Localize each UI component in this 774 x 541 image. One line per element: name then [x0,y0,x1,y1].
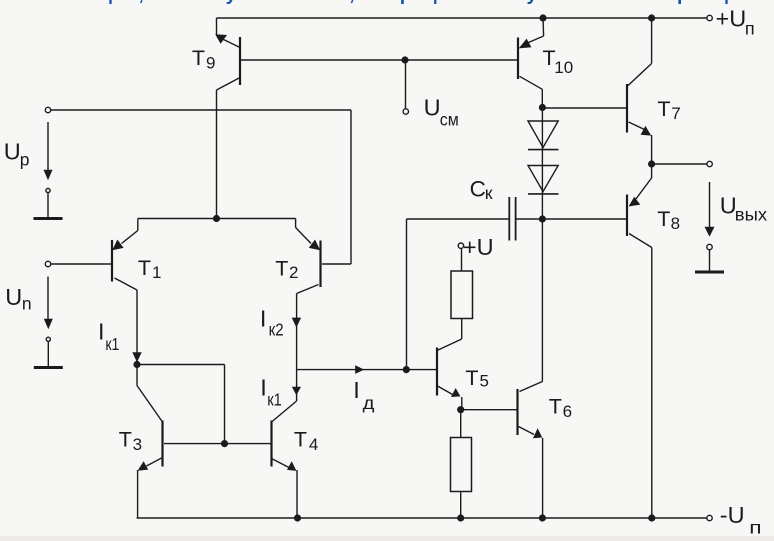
svg-text:-U: -U [720,502,745,528]
svg-text:6: 6 [563,402,572,421]
svg-text:I: I [260,375,267,401]
svg-text:7: 7 [671,104,680,123]
svg-text:к1: к1 [267,390,282,410]
svg-text:T: T [549,395,562,419]
svg-text:p: p [20,150,30,170]
svg-text:+U: +U [463,234,494,260]
svg-text:T: T [465,366,478,390]
svg-text:T: T [294,428,307,452]
svg-text:T: T [138,256,151,280]
svg-text:T: T [657,207,670,231]
svg-text:п: п [749,517,761,537]
svg-text:n: n [22,294,32,314]
svg-text:U: U [5,284,22,310]
svg-text:C: C [470,176,486,201]
svg-text:п: п [745,18,755,38]
svg-text:см: см [440,110,459,130]
svg-text:I: I [98,319,105,345]
svg-text:I: I [353,377,360,403]
svg-text:U: U [4,139,21,165]
svg-text:1: 1 [152,263,161,282]
svg-text:T: T [657,97,670,121]
svg-text:вых: вых [735,204,768,224]
svg-text:10: 10 [554,58,573,77]
svg-text:к1: к1 [105,334,119,354]
svg-text:8: 8 [671,214,680,233]
svg-text:U: U [424,94,441,120]
svg-text:+U: +U [716,5,747,31]
svg-text:I: I [260,306,267,332]
svg-text:4: 4 [309,435,318,454]
svg-text:2: 2 [289,263,298,282]
svg-text:9: 9 [206,54,215,73]
svg-text:к: к [485,183,493,203]
svg-text:д: д [363,393,375,413]
svg-text:к2: к2 [269,320,284,340]
svg-text:T: T [275,257,288,281]
svg-text:T: T [192,46,205,70]
svg-text:3: 3 [133,435,142,454]
svg-text:T: T [119,427,132,451]
svg-text:5: 5 [480,372,489,391]
